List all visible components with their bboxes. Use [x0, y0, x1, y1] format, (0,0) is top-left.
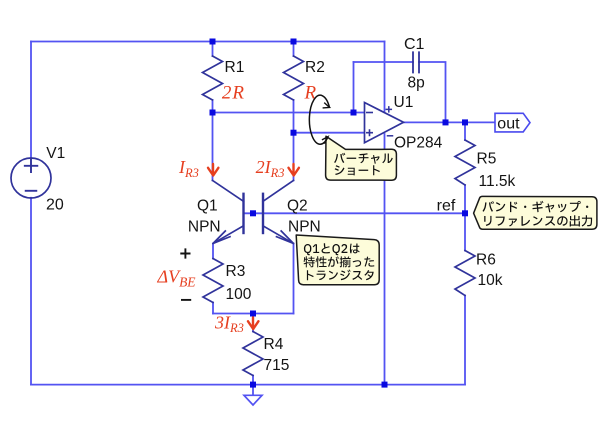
- junction ref node: [462, 210, 468, 216]
- note box: matched transistors callout: [296, 235, 379, 285]
- transistor Q1 emitter: [213, 226, 244, 244]
- svg-text:IR3: IR3: [178, 157, 199, 180]
- svg-text:V1: V1: [46, 145, 65, 162]
- note text: トランジスタ: [307, 270, 374, 281]
- transistor Q1 emitter arrow: [213, 231, 230, 244]
- wire V1 bottom to ground rail: [30, 198, 32, 385]
- svg-text:R2: R2: [305, 59, 325, 76]
- wire left from rail to V1 top: [30, 42, 32, 159]
- transistor Q2 collector: [263, 180, 294, 201]
- op-amp U1 triangle: [365, 103, 404, 143]
- wire R2 bottom / to Q2 collector: [293, 100, 295, 180]
- resistor R4 body: [243, 332, 263, 376]
- wire bottom rail: [31, 384, 465, 386]
- wire base / ref net: [244, 212, 466, 214]
- resistor R1 body: [203, 56, 223, 100]
- svg-text:R6: R6: [476, 252, 496, 269]
- ground symbol: [244, 395, 262, 405]
- svg-text:R4: R4: [264, 336, 284, 353]
- transistor Q1 base bar: [242, 194, 244, 233]
- voltage source V1 circle: [11, 158, 51, 198]
- note box: bandgap reference output callout: [474, 196, 597, 229]
- wire R6 top lead: [464, 213, 466, 250]
- wire top rail: [31, 41, 385, 43]
- wire feedback top to C1 left: [354, 61, 414, 63]
- note box: virtual short callout: [326, 136, 397, 180]
- wire R4 top lead: [252, 314, 254, 332]
- V1 plus sign: [25, 160, 38, 172]
- svg-text:715: 715: [264, 357, 290, 374]
- op-amp V- power pin minus: [388, 135, 393, 137]
- wire R5 bottom lead: [464, 185, 466, 213]
- wire R6 bottom lead: [464, 296, 466, 385]
- svg-text:R3: R3: [226, 263, 246, 280]
- wire R4 bottom lead: [252, 376, 254, 385]
- wire R1 bottom / to Q1 collector: [212, 100, 214, 180]
- junction output C1: [443, 119, 449, 125]
- transistor Q2 base bar: [262, 194, 264, 233]
- op-amp inverting input minus: [367, 112, 372, 114]
- junction R2 bottom / non-inverting wire: [291, 130, 297, 136]
- note text: バーチャル: [334, 153, 393, 164]
- red current arrow 2I_R3: [289, 164, 299, 176]
- wire V- drop to ground rail: [384, 134, 386, 385]
- ellipse arrowhead bottom: [322, 137, 328, 144]
- svg-text:NPN: NPN: [188, 218, 221, 235]
- svg-text:2R: 2R: [222, 82, 245, 103]
- junction output R5: [462, 119, 468, 125]
- junction R1 top: [210, 39, 216, 45]
- op-amp V+ power pin plus: [386, 107, 391, 112]
- svg-text:8p: 8p: [408, 75, 425, 92]
- out port flag: [495, 113, 530, 132]
- junction emitter R4: [250, 311, 256, 317]
- svg-text:Q2: Q2: [287, 197, 308, 214]
- svg-text:2IR3: 2IR3: [256, 157, 285, 180]
- wire Q1 emitter to R3: [212, 244, 214, 259]
- junction Q1 Q2 bases: [250, 210, 256, 216]
- wire V+ drop to op-amp: [384, 42, 386, 112]
- wire R5 top lead: [464, 122, 466, 140]
- svg-text:NPN: NPN: [288, 218, 321, 235]
- junction ground rail R4: [250, 382, 256, 388]
- note text: 特性が揃った: [304, 256, 375, 267]
- svg-text:ref: ref: [437, 197, 456, 214]
- transistor Q2 emitter arrow: [277, 231, 294, 244]
- wire emitter join horizontal: [213, 313, 294, 315]
- svg-text:C1: C1: [404, 36, 425, 53]
- wire non-inverting input: [294, 132, 365, 134]
- wire C1 right to output: [419, 62, 446, 122]
- svg-text:out: out: [497, 116, 520, 133]
- svg-text:Q1: Q1: [197, 197, 218, 214]
- wire inverting input: [213, 112, 365, 114]
- dVbe minus mark: [181, 299, 191, 301]
- svg-text:OP284: OP284: [394, 134, 443, 151]
- junction R2 top: [291, 39, 297, 45]
- resistor R6 body: [455, 251, 475, 296]
- note text: バンド・ギャップ・: [483, 201, 589, 213]
- junction R1 bottom / inverting wire: [210, 110, 216, 116]
- capacitor C1 plates: [413, 52, 419, 72]
- dVbe plus mark: [180, 248, 190, 258]
- V1 minus sign: [26, 190, 37, 192]
- svg-text:R: R: [304, 82, 317, 103]
- svg-text:R1: R1: [225, 59, 245, 76]
- ellipse arrowhead top: [323, 103, 330, 108]
- wire op-amp output to out port: [404, 121, 496, 123]
- svg-text:11.5k: 11.5k: [479, 173, 516, 190]
- svg-text:ΔVBE: ΔVBE: [157, 267, 197, 290]
- resistor R3 body: [203, 259, 223, 303]
- svg-text:100: 100: [226, 286, 252, 303]
- resistor R2 body: [284, 56, 304, 100]
- resistor R5 body: [455, 140, 475, 185]
- virtual short ellipse arrow: [309, 95, 329, 144]
- wire feedback left vertical: [353, 62, 355, 113]
- svg-text:3IR3: 3IR3: [214, 313, 244, 336]
- note text: リファレンスの出力: [484, 215, 592, 226]
- junction ground rail V-: [382, 382, 388, 388]
- red current arrow I_R3: [208, 164, 218, 176]
- wire ground stub: [252, 385, 254, 395]
- op-amp non-inverting input plus: [367, 130, 372, 135]
- svg-text:U1: U1: [394, 94, 414, 111]
- red current arrow 3I_R3: [248, 318, 258, 330]
- svg-text:10k: 10k: [478, 272, 503, 289]
- wire R1 top lead: [212, 42, 214, 57]
- wire R3 bottom lead: [212, 303, 214, 314]
- wire Q2 emitter down: [293, 244, 295, 314]
- svg-text:20: 20: [46, 197, 64, 214]
- transistor Q1 collector: [213, 180, 244, 201]
- note text: ショート: [335, 165, 380, 175]
- note text: Q1とQ2は: [304, 243, 360, 255]
- transistor Q2 emitter: [263, 226, 294, 244]
- svg-text:R5: R5: [477, 151, 497, 168]
- junction feedback tap: [351, 110, 357, 116]
- wire R2 top lead: [293, 42, 295, 57]
